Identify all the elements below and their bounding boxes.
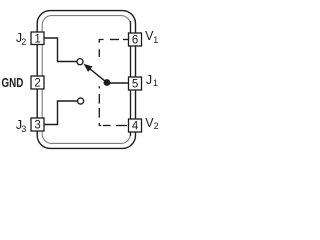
svg-text:1: 1 <box>153 78 158 88</box>
svg-text:J: J <box>146 73 152 87</box>
svg-text:5: 5 <box>132 79 138 91</box>
svg-text:2: 2 <box>154 121 159 131</box>
svg-text:4: 4 <box>132 121 139 133</box>
svg-text:1: 1 <box>153 35 158 45</box>
svg-text:1: 1 <box>34 33 40 45</box>
svg-text:6: 6 <box>132 34 138 46</box>
svg-text:2: 2 <box>21 37 26 47</box>
svg-text:GND: GND <box>2 76 24 90</box>
svg-text:3: 3 <box>21 124 26 134</box>
svg-text:2: 2 <box>34 78 40 90</box>
svg-text:3: 3 <box>34 120 40 132</box>
